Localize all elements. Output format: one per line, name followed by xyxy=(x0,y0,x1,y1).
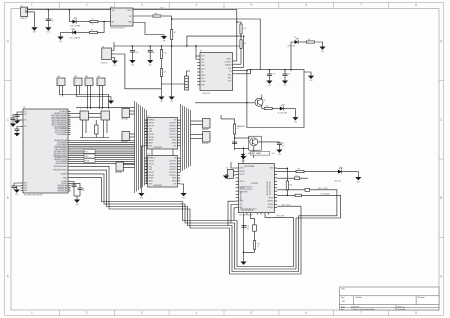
svg-text:L1: L1 xyxy=(237,128,239,130)
svg-text:C1: C1 xyxy=(51,18,53,20)
svg-text:INPUT2: INPUT2 xyxy=(149,125,155,127)
svg-text:RPB/PMD/RB: RPB/PMD/RB xyxy=(58,185,67,187)
svg-text:OUTPUT3: OUTPUT3 xyxy=(169,131,176,133)
svg-text:1K: 1K xyxy=(92,23,94,25)
svg-text:GPIO15: GPIO15 xyxy=(240,171,246,173)
svg-text:VCP: VCP xyxy=(173,183,176,185)
svg-text:U3: U3 xyxy=(200,51,202,53)
svg-text:VCC: VCC xyxy=(24,120,27,122)
svg-text:C12: C12 xyxy=(282,143,285,145)
svg-text:SCL/SPC: SCL/SPC xyxy=(225,62,233,64)
svg-text:MOTOR5: MOTOR5 xyxy=(202,143,209,145)
svg-text:MOTOR3: MOTOR3 xyxy=(116,172,123,174)
svg-text:LED_BLUE: LED_BLUE xyxy=(287,45,295,47)
svg-text:ISEN1: ISEN1 xyxy=(172,178,177,180)
svg-text:INPUT2: INPUT2 xyxy=(149,163,155,165)
svg-text:SCL: SCL xyxy=(201,62,204,64)
svg-text:J1: J1 xyxy=(21,5,23,7)
svg-text:1uF: 1uF xyxy=(152,52,155,54)
svg-text:4K: 4K xyxy=(174,32,176,34)
svg-text:SLEEP: SLEEP xyxy=(149,140,154,142)
svg-text:4.7uF: 4.7uF xyxy=(135,52,139,54)
svg-text:GPIO2: GPIO2 xyxy=(240,174,245,176)
svg-text:INPUT1: INPUT1 xyxy=(149,123,155,125)
svg-text:R2: R2 xyxy=(91,29,93,31)
svg-text:U6: U6 xyxy=(102,46,104,48)
svg-text:ESP8266: ESP8266 xyxy=(251,183,258,185)
svg-text:9/22/2013: 9/22/2013 xyxy=(351,306,359,308)
svg-text:4: 4 xyxy=(196,311,198,315)
svg-text:A4: A4 xyxy=(342,300,344,303)
svg-text:VINT: VINT xyxy=(149,145,153,147)
svg-text:PWR_IN: PWR_IN xyxy=(21,18,28,20)
svg-text:C3: C3 xyxy=(82,188,84,190)
svg-text:OUTPUT1: OUTPUT1 xyxy=(169,161,176,163)
svg-text:D2: D2 xyxy=(294,37,296,39)
svg-text:1uF: 1uF xyxy=(51,21,54,23)
svg-text:VDDIO: VDDIO xyxy=(226,58,232,60)
svg-text:INT1: INT1 xyxy=(228,78,231,80)
svg-text:U4: U4 xyxy=(148,154,150,156)
svg-text:GND: GND xyxy=(24,183,27,185)
svg-text:SOSCI/RPB4/RB4: SOSCI/RPB4/RB4 xyxy=(55,126,68,128)
svg-text:CS: CS xyxy=(229,71,231,73)
svg-text:VCP: VCP xyxy=(173,145,176,147)
svg-text:8: 8 xyxy=(415,311,417,315)
svg-text:GPIO/MTDO/U0RXD: GPIO/MTDO/U0RXD xyxy=(270,180,272,195)
svg-text:OUTPUT2: OUTPUT2 xyxy=(169,128,176,130)
svg-text:ISEN2: ISEN2 xyxy=(172,181,177,183)
svg-text:RPB/PMD/RB: RPB/PMD/RB xyxy=(58,187,67,189)
svg-text:Date:: Date: xyxy=(341,305,346,308)
svg-text:OUTPUT4: OUTPUT4 xyxy=(169,172,176,174)
svg-text:GPIO9: GPIO9 xyxy=(268,197,273,199)
svg-text:6: 6 xyxy=(305,3,307,7)
svg-text:Q1: Q1 xyxy=(264,100,266,102)
svg-text:INPUT3: INPUT3 xyxy=(149,172,155,174)
svg-text:GPIO0: GPIO0 xyxy=(240,181,245,183)
svg-text:R11: R11 xyxy=(298,169,301,171)
svg-text:INPUT3: INPUT3 xyxy=(149,134,155,136)
svg-text:U2: U2 xyxy=(148,116,150,118)
svg-text:PGEC3/RPB6/RB6: PGEC3/RPB6/RB6 xyxy=(54,148,67,150)
svg-text:R9: R9 xyxy=(308,39,310,41)
svg-text:GPIO12-15/MTCK: GPIO12-15/MTCK xyxy=(240,189,252,191)
svg-text:RPB/PMD/RB: RPB/PMD/RB xyxy=(58,191,67,193)
svg-text:RPB11/PMD1/RB11: RPB11/PMD1/RB11 xyxy=(54,166,67,168)
svg-text:GPIO/MTDO/U0RXD: GPIO/MTDO/U0RXD xyxy=(267,180,269,195)
svg-text:SLEEP: SLEEP xyxy=(149,178,154,180)
svg-text:RPB10/PMD2/RB10: RPB10/PMD2/RB10 xyxy=(53,170,67,172)
svg-text:D5 LED_RED: D5 LED_RED xyxy=(278,112,289,114)
svg-text:TCK/RPB8/RB8: TCK/RPB8/RB8 xyxy=(56,144,67,146)
svg-text:1: 1 xyxy=(31,3,33,7)
svg-text:OUTPUT2: OUTPUT2 xyxy=(169,125,176,127)
svg-text:LED_Pins: LED_Pins xyxy=(334,180,341,182)
svg-text:B: B xyxy=(7,196,9,200)
svg-text:U5: U5 xyxy=(111,6,113,8)
svg-text:RPB/PMD/RB: RPB/PMD/RB xyxy=(58,189,67,191)
svg-text:DRV8833PW: DRV8833PW xyxy=(154,185,163,187)
svg-text:2.7K: 2.7K xyxy=(164,53,167,55)
svg-text:Sheet of: Sheet of xyxy=(398,305,405,308)
svg-text:4: 4 xyxy=(196,3,198,7)
svg-text:OUTPUT2: OUTPUT2 xyxy=(169,163,176,165)
svg-text:GND: GND xyxy=(24,188,27,190)
svg-text:OUTPUT3: OUTPUT3 xyxy=(169,169,176,171)
svg-text:VCC: VCC xyxy=(24,112,27,114)
svg-text:ISEN2: ISEN2 xyxy=(172,143,177,145)
svg-text:VCC: VCC xyxy=(24,126,27,128)
svg-text:MOTOR2: MOTOR2 xyxy=(122,142,129,144)
svg-text:MOTOR1: MOTOR1 xyxy=(122,119,129,121)
svg-text:D6: D6 xyxy=(340,167,342,169)
svg-text:TMS/RPB10/RB10: TMS/RPB10/RB10 xyxy=(54,146,67,148)
svg-text:LED_GREEN: LED_GREEN xyxy=(71,25,82,27)
svg-text:SCL1/RPB8/RB8: SCL1/RPB8/RB8 xyxy=(56,161,68,163)
svg-text:VINT: VINT xyxy=(149,183,153,185)
svg-text:MCP130T: MCP130T xyxy=(101,63,108,65)
svg-text:5: 5 xyxy=(251,311,253,315)
svg-text:1K: 1K xyxy=(257,246,259,248)
svg-text:1uF: 1uF xyxy=(247,228,250,230)
svg-text:VBUS: VBUS xyxy=(63,177,67,179)
svg-text:CS: CS xyxy=(201,72,203,74)
svg-text:GPIO10: GPIO10 xyxy=(268,201,274,203)
svg-text:D+/RB11: D+/RB11 xyxy=(61,181,67,183)
svg-text:7: 7 xyxy=(360,311,362,315)
svg-text:Y: Y xyxy=(80,109,81,111)
svg-text:5: 5 xyxy=(251,3,253,7)
svg-text:2.2uF: 2.2uF xyxy=(272,73,276,75)
svg-text:VUSB3V3: VUSB3V3 xyxy=(60,174,67,176)
svg-text:2: 2 xyxy=(86,3,88,7)
svg-text:MCP1603T-330I/OS: MCP1603T-330I/OS xyxy=(111,27,125,29)
svg-text:U1: U1 xyxy=(23,107,25,109)
svg-text:ISEN1: ISEN1 xyxy=(172,140,177,142)
svg-text:INPUT4: INPUT4 xyxy=(149,175,155,177)
svg-text:3: 3 xyxy=(141,311,143,315)
svg-text:7: 7 xyxy=(360,3,362,7)
svg-text:3V3: 3V3 xyxy=(240,204,243,206)
svg-text:10K: 10K xyxy=(164,72,167,74)
svg-text:OUTPUT4: OUTPUT4 xyxy=(169,134,176,136)
svg-text:R12: R12 xyxy=(257,243,260,245)
svg-text:OUTPUT1: OUTPUT1 xyxy=(169,123,176,125)
svg-text:4.7K: 4.7K xyxy=(243,28,246,30)
svg-text:INPUT4: INPUT4 xyxy=(149,137,155,139)
svg-text:OUTPUT4: OUTPUT4 xyxy=(169,175,176,177)
svg-text:GND: GND xyxy=(24,190,27,192)
svg-text:Revision: Revision xyxy=(418,297,425,299)
svg-text:TDI/RPB7/RB7: TDI/RPB7/RB7 xyxy=(57,142,67,144)
svg-text:J9: J9 xyxy=(226,168,228,170)
svg-text:R4: R4 xyxy=(155,13,157,15)
svg-text:3: 3 xyxy=(141,3,143,7)
svg-text:PGED3/RPB5/RB5: PGED3/RPB5/RB5 xyxy=(54,150,67,152)
svg-text:R15: R15 xyxy=(290,185,293,187)
svg-text:10uF: 10uF xyxy=(287,73,290,75)
svg-text:R1: R1 xyxy=(92,19,94,21)
svg-text:C:\Users\..\Plant_Bot4.SchDoc: C:\Users\..\Plant_Bot4.SchDoc xyxy=(351,308,375,311)
svg-text:INPUT1: INPUT1 xyxy=(149,161,155,163)
svg-text:1: 1 xyxy=(31,311,33,315)
svg-text:8: 8 xyxy=(415,3,417,7)
svg-text:TDO/RPB9/RB9: TDO/RPB9/RB9 xyxy=(56,134,67,136)
svg-text:1uF: 1uF xyxy=(82,190,85,192)
svg-text:RST_GYRO: RST_GYRO xyxy=(282,204,291,206)
svg-text:DRDY: DRDY xyxy=(201,75,205,77)
svg-text:BT5.0 SEN: BT5.0 SEN xyxy=(277,216,285,218)
svg-text:INT1: INT1 xyxy=(201,78,204,80)
svg-text:DRV8833PW: DRV8833PW xyxy=(154,147,163,149)
svg-text:Size: Size xyxy=(341,297,345,299)
svg-text:VCC: VCC xyxy=(24,114,27,116)
svg-text:VOUT: VOUT xyxy=(127,10,131,12)
svg-text:MOTOR4: MOTOR4 xyxy=(202,129,209,131)
svg-text:GND: GND xyxy=(24,185,27,187)
svg-text:WROOM-A/P: WROOM-A/P xyxy=(244,165,255,168)
svg-text:6: 6 xyxy=(305,311,307,315)
svg-text:GPIO12: GPIO12 xyxy=(268,207,274,209)
svg-text:C11: C11 xyxy=(247,226,250,228)
svg-text:L3G4200D: L3G4200D xyxy=(202,93,211,95)
svg-text:GND2: GND2 xyxy=(240,168,244,170)
svg-text:R10: R10 xyxy=(266,105,269,107)
svg-text:Y: Y xyxy=(101,109,102,111)
svg-text:INT2: INT2 xyxy=(228,74,231,76)
svg-text:OUTPUT2: OUTPUT2 xyxy=(169,166,176,168)
svg-text:Drawn By:: Drawn By: xyxy=(398,308,407,311)
svg-text:D-/RB10: D-/RB10 xyxy=(61,183,67,185)
svg-text:C15: C15 xyxy=(295,175,298,177)
svg-text:Number: Number xyxy=(356,297,363,299)
svg-text:OUTPUT4: OUTPUT4 xyxy=(169,137,176,139)
svg-text:RES: RES xyxy=(201,59,204,61)
svg-text:File:: File: xyxy=(341,309,345,311)
svg-text:B: B xyxy=(440,196,442,200)
svg-text:GPIO11: GPIO11 xyxy=(268,204,274,206)
svg-text:1uF: 1uF xyxy=(282,145,285,147)
svg-text:PIC32MX250F128B-I/SP: PIC32MX250F128B-I/SP xyxy=(24,195,44,197)
svg-text:2: 2 xyxy=(86,311,88,315)
